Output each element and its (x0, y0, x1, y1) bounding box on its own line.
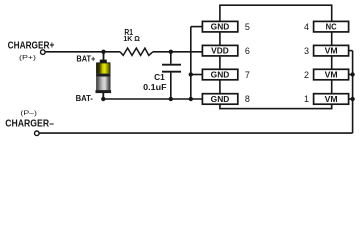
wire VM pin2 stub (348, 74, 352, 76)
battery BT1 (96, 60, 112, 94)
svg-text:8: 8 (245, 94, 250, 104)
svg-text:BAT-: BAT- (76, 94, 94, 103)
svg-text:VM: VM (325, 71, 338, 80)
capacitor C1 top lead (170, 52, 172, 64)
charger+ terminal (41, 50, 46, 55)
node capacitor top dot (169, 50, 173, 54)
node gnd bus pin7 dot (189, 72, 193, 76)
node capacitor bottom dot (169, 97, 173, 101)
battery bottom lead (102, 93, 104, 99)
wire gnd pin5 stub (191, 26, 203, 28)
svg-text:3: 3 (304, 46, 309, 56)
wire VM bus vertical (352, 51, 354, 134)
svg-text:4: 4 (304, 22, 309, 32)
svg-text:GND: GND (211, 23, 230, 32)
svg-text:1K Ω: 1K Ω (123, 34, 139, 43)
battery top lead (103, 52, 105, 60)
svg-text:7: 7 (245, 70, 250, 80)
svg-text:(P–): (P–) (20, 110, 37, 117)
wire BAT- to GND pin8 (103, 98, 202, 100)
pin 6 box VDD (202, 45, 237, 56)
svg-text:1: 1 (304, 94, 309, 104)
svg-text:VDD: VDD (211, 47, 229, 56)
node VM bus pin2 dot (350, 72, 354, 76)
node VM bus pin1 dot (350, 97, 354, 101)
wire VM pin1 stub (348, 98, 352, 100)
resistor R1 (120, 48, 153, 55)
charger- terminal (35, 131, 40, 136)
wire charger- bottom (39, 132, 352, 134)
pin 7 box GND (202, 69, 237, 80)
svg-text:VM: VM (325, 47, 338, 56)
svg-text:0.1uF: 0.1uF (143, 83, 167, 92)
wire gnd pin7 stub (191, 74, 203, 76)
pin 8 box GND (202, 94, 237, 105)
pin 1 box VM (314, 94, 349, 105)
node battery bottom dot (101, 97, 105, 101)
capacitor C1 bottom lead (170, 73, 172, 99)
node gnd bus bottom dot (189, 97, 193, 101)
svg-text:C1: C1 (154, 73, 165, 82)
svg-text:NC: NC (326, 23, 337, 32)
wire VM pin3 stub (348, 50, 352, 52)
pin 4 box NC (314, 21, 349, 32)
svg-text:VM: VM (325, 95, 338, 104)
label BAT+ (75, 55, 96, 64)
svg-text:CHARGER+: CHARGER+ (8, 40, 55, 51)
svg-text:6: 6 (245, 46, 250, 56)
svg-text:2: 2 (304, 70, 309, 80)
svg-text:BAT+: BAT+ (76, 55, 95, 64)
pin 3 box VM (314, 45, 349, 56)
svg-text:(P+): (P+) (19, 55, 36, 62)
wire resistor to VDD pin (153, 51, 203, 53)
pin 5 box GND (202, 21, 237, 32)
label BAT- (75, 94, 95, 103)
svg-text:CHARGER–: CHARGER– (5, 119, 54, 130)
node BAT+ junction dot (101, 50, 105, 54)
svg-text:GND: GND (211, 95, 230, 104)
capacitor C1 plates (162, 65, 181, 72)
wire charger+ to resistor (45, 51, 120, 53)
svg-text:5: 5 (245, 22, 250, 32)
wire gnd bus vertical (190, 27, 192, 99)
pin 2 box VM (314, 69, 349, 80)
svg-text:GND: GND (211, 71, 230, 80)
IC U1 body (220, 5, 332, 108)
